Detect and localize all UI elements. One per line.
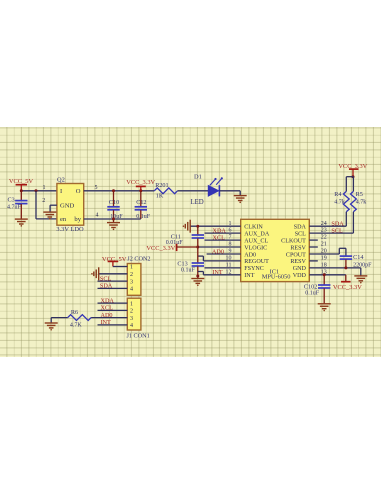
IC1 pin label CPOUT [286, 252, 306, 258]
IC1 pin number 10 [226, 255, 232, 261]
junction node pin1/en branch [35, 189, 38, 192]
svg-text:3: 3 [130, 315, 133, 321]
IC1 pin label VLOGIC [244, 245, 267, 251]
svg-text:CPOUT: CPOUT [286, 252, 306, 258]
svg-text:AUX_CL: AUX_CL [244, 238, 268, 244]
svg-text:R201: R201 [155, 181, 168, 188]
power port VCC_5V [9, 177, 34, 190]
ground left of CLKIN [183, 219, 191, 232]
svg-text:4: 4 [96, 212, 99, 218]
connector J2 body [127, 263, 141, 295]
svg-text:AUX_DA: AUX_DA [244, 231, 270, 237]
IC1 pin label INT [244, 273, 254, 279]
svg-text:SCL: SCL [100, 275, 112, 282]
svg-text:XDA: XDA [101, 297, 115, 304]
net label INT [212, 269, 223, 276]
IC1 pin number 13 [321, 269, 327, 275]
power port VCC_3.3V (pullups) [338, 162, 367, 176]
IC1 pin label REGOUT [244, 259, 269, 265]
stub pin 21 [309, 246, 318, 248]
label LED [191, 198, 204, 205]
svg-text:4.7k: 4.7k [334, 199, 345, 205]
net label SCL (J2) [100, 275, 112, 282]
svg-text:SDA: SDA [100, 282, 113, 289]
svg-text:O: O [76, 188, 81, 195]
capacitor C14 [340, 256, 352, 268]
Q2 pin 2 wire [50, 205, 57, 212]
label MPU-6050 [262, 273, 291, 280]
value 4.7K [70, 322, 83, 328]
IC1 pin number 6 [229, 227, 232, 233]
label C13 [177, 260, 187, 267]
wire J1 pin 1 [98, 302, 128, 304]
svg-text:C102: C102 [304, 283, 317, 290]
regulator Q2 body [57, 183, 84, 225]
wire GND row [309, 267, 361, 275]
wire XCL row [205, 239, 241, 241]
svg-text:VDD: VDD [293, 273, 307, 279]
svg-text:XCL: XCL [101, 304, 114, 311]
junction CLKIN/C11 [196, 224, 199, 227]
label R201 [155, 181, 168, 188]
wire SDA row [309, 225, 346, 227]
label C3 [8, 196, 15, 203]
junction C12/VCC_3.3V [139, 189, 142, 192]
ground at GND pin [354, 275, 367, 283]
Q2 pin number 5 [95, 185, 98, 191]
label C14 [353, 254, 363, 261]
value 2200pF [353, 262, 372, 268]
J2 pin number 4 [130, 286, 133, 292]
svg-text:3: 3 [130, 279, 133, 285]
junction C13 bottom [196, 274, 199, 277]
ground at R6 [45, 317, 58, 330]
capacitor C102 [318, 274, 330, 303]
IC1 pin label VDD [293, 273, 307, 279]
svg-text:4.7uF: 4.7uF [7, 204, 22, 210]
wire J1 pin 4 [98, 323, 128, 325]
label R6 [71, 309, 78, 316]
wire J2 pin 2 [99, 272, 127, 274]
svg-text:VCC_3.3V: VCC_3.3V [333, 283, 362, 290]
net label AD0 (J1) [101, 311, 113, 318]
svg-text:19: 19 [321, 255, 327, 261]
value 1K [156, 192, 164, 199]
value 4.7uF [7, 204, 22, 210]
power port VCC_3.3V (VDD) [333, 274, 362, 290]
IC1 pin number 21 [321, 241, 327, 247]
ground below C102 [318, 303, 331, 311]
op IC1 MPU-6050 body [241, 219, 310, 281]
schematic grid sheet [0, 127, 381, 357]
svg-text:RESV: RESV [290, 259, 306, 265]
svg-text:R4: R4 [334, 191, 341, 198]
wire AD0 row [207, 253, 241, 255]
svg-text:GND: GND [293, 266, 307, 272]
net label XDA [213, 227, 227, 234]
value 0.1uF [181, 267, 196, 273]
power port VCC_3.3V (rail) [126, 179, 155, 191]
svg-text:2: 2 [130, 272, 133, 278]
value 0.1uF [305, 290, 320, 296]
wire pullup top [346, 175, 353, 177]
svg-text:2: 2 [130, 308, 133, 314]
svg-text:C13: C13 [177, 260, 187, 267]
label R5 [356, 191, 363, 198]
IC1 pin number 20 [321, 248, 327, 254]
net label SDA [331, 220, 344, 227]
wire J1 pin 3 [91, 316, 127, 318]
capacitor C3 [15, 190, 27, 218]
label C102 [304, 283, 317, 290]
svg-text:VLOGIC: VLOGIC [244, 245, 267, 251]
IC1 pin number 1 [229, 220, 232, 226]
net label AD0 [212, 248, 224, 255]
J1 pin number 2 [130, 308, 133, 314]
label IC1 [270, 268, 280, 275]
svg-text:INT: INT [212, 269, 223, 276]
svg-text:C14: C14 [353, 254, 363, 261]
IC1 pin number 8 [229, 241, 232, 247]
wire INT tap [198, 271, 241, 274]
wire VDD row [309, 273, 346, 275]
ground below C10 [107, 219, 120, 230]
junction cap-bottom ground [112, 217, 115, 220]
wire VLOGIC row [198, 246, 241, 248]
wire FSYNC row [205, 266, 241, 268]
stub pin 22 [309, 239, 318, 241]
IC1 pin number 23 [321, 227, 327, 233]
svg-text:AD0: AD0 [212, 248, 224, 255]
svg-text:VCC_3.3V: VCC_3.3V [126, 179, 155, 186]
svg-text:SCL: SCL [295, 231, 306, 237]
svg-text:0.1uF: 0.1uF [181, 267, 196, 273]
svg-text:MPU-6050: MPU-6050 [262, 273, 291, 280]
svg-text:AD0: AD0 [244, 252, 256, 258]
wire J2 pin 1 [113, 265, 127, 267]
svg-text:2: 2 [42, 197, 45, 203]
IC1 pin number 22 [321, 234, 327, 240]
wire J2 pin 3 [98, 280, 128, 282]
wire VCC_5V to Q2 pin 1 [21, 189, 57, 191]
capacitor C12 [135, 190, 147, 218]
J2 pin number 3 [130, 279, 133, 285]
IC1 pin label AUX_DA [244, 231, 270, 237]
resistor R201 [154, 187, 177, 193]
svg-text:4: 4 [130, 323, 133, 329]
resistor R4 [343, 176, 349, 226]
IC1 pin label FSYNC [244, 266, 264, 272]
label J1 CON1 [127, 332, 150, 339]
label C12 [136, 198, 146, 205]
value 4.7k R5 [356, 199, 367, 205]
IC1 pin label CLKIN [244, 224, 263, 230]
Q2 pin number 2 [42, 197, 45, 203]
value 0.01uF [166, 240, 184, 246]
svg-text:XDA: XDA [213, 227, 227, 234]
IC1 pin number 12 [226, 269, 232, 275]
capacitor C11 [192, 226, 204, 247]
svg-text:1: 1 [130, 301, 133, 307]
svg-text:1K: 1K [156, 192, 164, 199]
svg-text:REGOUT: REGOUT [244, 259, 269, 265]
J2 pin number 1 [130, 264, 133, 270]
wire J1 pin 2 [98, 309, 128, 311]
svg-text:4.7K: 4.7K [70, 322, 83, 328]
svg-text:J2 CON2: J2 CON2 [127, 255, 150, 262]
Q2 pin label by [74, 216, 81, 223]
Q2 pin number 4 [96, 212, 99, 218]
svg-text:VCC_5V: VCC_5V [9, 177, 34, 184]
power port VCC_5V (J2) [102, 255, 127, 266]
svg-text:AD0: AD0 [101, 311, 113, 318]
LED D1 [208, 177, 223, 196]
label C10 [109, 198, 119, 205]
junction pullup top [352, 175, 355, 178]
net label SDA (J2) [100, 282, 113, 289]
svg-text:CLKIN: CLKIN [244, 224, 263, 230]
label 3.3V LDO [56, 225, 84, 232]
Q2 pin label I [60, 188, 62, 195]
IC1 pin number 11 [226, 262, 232, 268]
svg-text:J1 CON1: J1 CON1 [127, 332, 150, 339]
J1 pin number 3 [130, 315, 133, 321]
value 4.7k R4 [334, 199, 345, 205]
ground at Q2 pin 2 [43, 212, 56, 220]
ground below C3 [15, 219, 28, 227]
IC1 pin label GND [293, 266, 307, 272]
IC1 pin label RESV [290, 245, 306, 251]
IC1 pin label SCL [295, 231, 306, 237]
Q2 pin number 1 [43, 185, 46, 191]
wire SCL row [309, 232, 353, 234]
wire XDA row [205, 232, 241, 234]
IC1 pin label RESV [290, 259, 306, 265]
label J2 CON2 [127, 255, 150, 262]
svg-text:C10: C10 [109, 198, 119, 205]
svg-text:GND: GND [60, 202, 75, 209]
IC1 pin label AUX_CL [244, 238, 268, 244]
wire REGOUT tap [198, 256, 241, 261]
junction node VCC_5V/C3 [20, 189, 23, 192]
svg-text:22: 22 [321, 234, 327, 240]
J1 pin number 4 [130, 323, 133, 329]
net label XCL [213, 234, 226, 241]
svg-text:SCL: SCL [331, 227, 343, 234]
svg-text:INT: INT [101, 319, 112, 326]
label C11 [171, 233, 181, 240]
IC1 pin number 7 [229, 234, 232, 240]
wire CLKIN row [191, 225, 241, 227]
wire R201 to D1 [178, 189, 209, 191]
label R4 [334, 191, 341, 198]
svg-text:4.7k: 4.7k [356, 199, 367, 205]
resistor R5 [351, 176, 357, 232]
IC1 pin number 9 [229, 248, 232, 254]
wire by-pin/cap bottoms [84, 218, 141, 220]
svg-text:0.1uF: 0.1uF [305, 290, 320, 296]
svg-text:0.01uF: 0.01uF [166, 240, 184, 246]
svg-text:21: 21 [321, 241, 327, 247]
net label INT (J1) [101, 319, 112, 326]
connector J1 body [127, 298, 141, 330]
junction VDD/C102 [323, 273, 326, 276]
svg-text:R6: R6 [71, 309, 78, 316]
svg-text:RESV: RESV [290, 245, 306, 251]
power port VCC_3.3V (VLOGIC) [146, 243, 197, 251]
wire D1 to ground [219, 189, 240, 191]
svg-text:by: by [74, 216, 81, 223]
junction C10 top [112, 189, 115, 192]
IC1 pin label CLKOUT [281, 238, 306, 244]
IC1 pin number 18 [321, 262, 327, 268]
IC1 pin label SDA [294, 224, 307, 230]
Q2 pin label O [76, 188, 81, 195]
svg-text:C3: C3 [8, 196, 15, 203]
capacitor C10 [107, 190, 119, 218]
svg-text:LED: LED [191, 198, 204, 205]
svg-text:C12: C12 [136, 198, 146, 205]
wire CPOUT row [309, 248, 346, 255]
junction VLOGIC/C11 [196, 245, 199, 248]
svg-text:I: I [60, 188, 62, 195]
label D1 [194, 173, 202, 180]
svg-text:R5: R5 [356, 191, 363, 198]
svg-text:INT: INT [244, 273, 254, 279]
ground at J2 pin 2 [91, 267, 99, 280]
svg-text:3.3V LDO: 3.3V LDO [56, 225, 84, 232]
svg-text:1: 1 [43, 185, 46, 191]
label Q2 [57, 176, 65, 183]
svg-text:D1: D1 [194, 173, 202, 180]
svg-text:Q2: Q2 [57, 176, 65, 183]
ground below C13 [191, 278, 204, 286]
stub pin 19 [309, 259, 318, 261]
IC1 pin number 19 [321, 255, 327, 261]
Q2 pin label en [60, 216, 67, 223]
svg-text:FSYNC: FSYNC [244, 266, 264, 272]
svg-text:1: 1 [130, 264, 133, 270]
wire junction to en pin [36, 190, 57, 218]
net label XDA (J1) [101, 297, 115, 304]
IC1 pin number 24 [321, 220, 327, 226]
J2 pin number 2 [130, 272, 133, 278]
IC1 pin label AD0 [244, 252, 256, 258]
Q2 pin label GND [60, 202, 75, 209]
capacitor C13 [192, 247, 204, 278]
svg-text:SDA: SDA [294, 224, 307, 230]
net label SCL [331, 227, 343, 234]
svg-text:en: en [60, 216, 67, 223]
net label XCL (J1) [101, 304, 114, 311]
value 10uF [110, 214, 123, 220]
junction GND/C14 [344, 266, 347, 269]
J1 pin number 1 [130, 301, 133, 307]
ground after D1 [234, 190, 247, 202]
svg-text:XCL: XCL [213, 234, 226, 241]
svg-text:CLKOUT: CLKOUT [281, 238, 306, 244]
wire J2 pin 4 [98, 287, 128, 289]
svg-text:4: 4 [130, 286, 133, 292]
wire Q2 output rail [84, 189, 155, 191]
value 0.1uF [136, 214, 151, 220]
resistor R6 [51, 314, 91, 320]
